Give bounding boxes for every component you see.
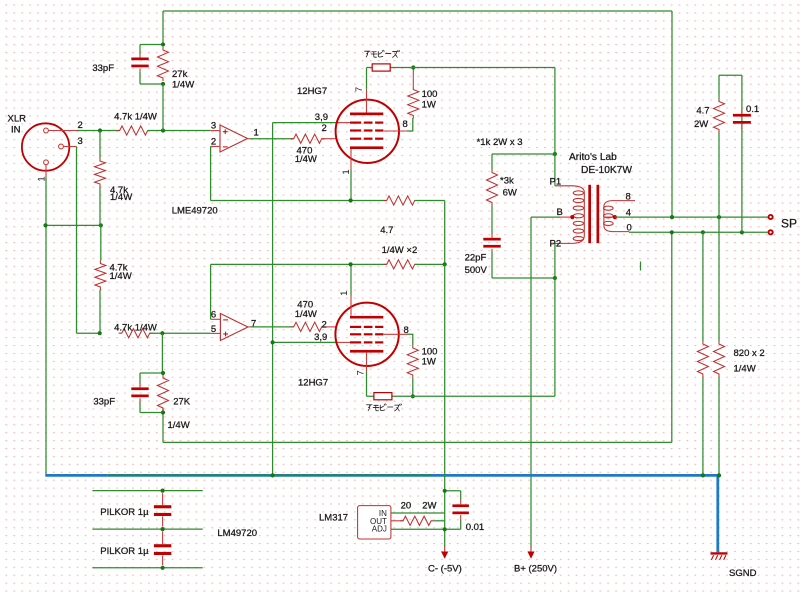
power C- arrow bbox=[441, 547, 448, 559]
wire stub I bbox=[640, 262, 642, 271]
resistor 100 R10 bbox=[407, 345, 418, 378]
capacitor 33pF C2 bbox=[131, 373, 148, 413]
wire cathode1 row bbox=[211, 200, 387, 202]
op-amp U1A LME49720 bbox=[211, 125, 250, 152]
wire bead1 rail bbox=[367, 67, 555, 69]
ferrite bead FB2 bbox=[374, 393, 392, 400]
pin 3 lead XLR bbox=[63, 146, 76, 148]
label IN bbox=[11, 125, 21, 136]
svg-text:DE-10K7W: DE-10K7W bbox=[581, 165, 632, 176]
pin label 2 V2 bbox=[322, 320, 327, 331]
junction bus grid-gnd bbox=[271, 473, 275, 477]
wire R2 to mid bbox=[99, 187, 101, 225]
pin label 6 U1B bbox=[211, 309, 216, 320]
label SP bbox=[781, 217, 797, 231]
wire 820R top bbox=[718, 217, 720, 341]
resistor 470 R8 bbox=[291, 322, 325, 331]
value 27K R6 bbox=[173, 397, 191, 408]
value 4.7k R2 bbox=[110, 185, 128, 196]
pin label 1 V1 bbox=[341, 169, 352, 174]
junction 0.01 top bbox=[443, 489, 447, 493]
value 4.7k 1/4W R4 bbox=[114, 323, 157, 334]
power B+ arrow bbox=[527, 547, 534, 559]
resistor 20 2W R17 bbox=[400, 516, 434, 525]
wire tube2 cathode up bbox=[350, 264, 352, 295]
wire zobel top bbox=[719, 74, 742, 76]
transformer T1 secondary winding bbox=[604, 201, 636, 232]
value 2W R14 bbox=[694, 119, 708, 130]
value 100 R10 bbox=[422, 346, 438, 357]
svg-text:8: 8 bbox=[403, 119, 408, 130]
wire 470 R8 to tube pin2 bbox=[322, 326, 337, 328]
pin label 2 XLR bbox=[78, 120, 83, 131]
wire pilkor rail2 bbox=[92, 528, 202, 530]
wire pilkor rail1 bbox=[92, 490, 202, 492]
wire 27k1 top tap bbox=[140, 44, 163, 46]
transformer T1 primary winding bbox=[555, 186, 584, 244]
junction R10 bottom bbox=[411, 394, 415, 398]
svg-text:7: 7 bbox=[354, 87, 365, 92]
resistor 4.7k R3 divider lower bbox=[95, 261, 106, 291]
junction P1 node bbox=[0, 0, 1, 1]
resistor 4.7 R11 bbox=[384, 196, 418, 205]
svg-text:3: 3 bbox=[211, 121, 216, 132]
wire XLR3 corner to R4 node bbox=[77, 332, 100, 334]
resistor 100 R9 bbox=[408, 87, 419, 119]
pin B lead bbox=[560, 215, 574, 219]
value 33pF C2 bbox=[93, 397, 115, 408]
value 1/4W R2 bbox=[110, 192, 132, 203]
wire P1 drop bbox=[554, 68, 556, 186]
junction 3k top bbox=[553, 152, 557, 156]
junction SP0 fb bbox=[670, 230, 674, 234]
pin 1 lead XLR bbox=[45, 165, 47, 178]
svg-text:*3k: *3k bbox=[500, 175, 514, 186]
wire 820R bottom bbox=[718, 377, 720, 475]
value 1/4W R7 bbox=[295, 154, 317, 165]
wire cathode join vertical bbox=[444, 201, 446, 265]
pin label 4 T1 bbox=[626, 207, 631, 218]
wire 27k2 bottom tap bbox=[140, 412, 163, 414]
wire cathode2 row right bbox=[415, 263, 445, 265]
svg-text:27k: 27k bbox=[172, 69, 188, 80]
svg-text:2: 2 bbox=[78, 120, 83, 131]
svg-text:SP: SP bbox=[781, 217, 797, 231]
svg-text:1/4W: 1/4W bbox=[295, 154, 317, 165]
pin label 1 U1A bbox=[254, 128, 259, 139]
junction R4 in node bbox=[98, 331, 102, 335]
label PILKOR 1u C6 bbox=[100, 507, 149, 518]
value 1/4W x2 R11R12 bbox=[382, 245, 418, 256]
wire tube1 grid lead red bbox=[336, 122, 350, 124]
junction 27k2 bottom bbox=[161, 410, 165, 414]
svg-text:2W: 2W bbox=[422, 500, 436, 511]
wire top feedback rail bbox=[163, 10, 672, 12]
junction divider mid bbox=[99, 223, 103, 227]
capacitor 0.01 C5 bbox=[452, 491, 469, 530]
pin P1 lead bbox=[0, 0, 1, 1]
junction 27k1 top bbox=[161, 42, 165, 46]
wire R3 to R4 node bbox=[99, 290, 101, 333]
junction pin1 gnd bbox=[43, 223, 47, 227]
value 4.7k 1/4W R1 bbox=[114, 112, 157, 123]
value 470 R8 bbox=[297, 299, 313, 310]
label LM317 bbox=[319, 513, 348, 524]
svg-text:PILKOR 1µ: PILKOR 1µ bbox=[100, 507, 149, 518]
value 820 x 2 bbox=[734, 348, 765, 359]
wire 27k2 top tap bbox=[140, 372, 163, 374]
value 6W R13 bbox=[503, 188, 517, 199]
svg-text:33pF: 33pF bbox=[93, 397, 115, 408]
svg-text:B: B bbox=[557, 207, 563, 218]
svg-text:1/4W: 1/4W bbox=[110, 271, 132, 282]
bus SGND left blue bbox=[45, 474, 108, 477]
wire 27k1 bottom tap bbox=[140, 83, 163, 85]
pin label 2 U1A bbox=[211, 136, 216, 147]
wire tube2 plate down bbox=[366, 372, 368, 396]
wire mid to R3 bbox=[100, 225, 102, 260]
svg-text:1/4W: 1/4W bbox=[734, 363, 756, 374]
wire node to R2 bbox=[99, 131, 101, 159]
value 1/4W R6 bbox=[168, 420, 190, 431]
wire tube2 grid lead red bbox=[336, 341, 350, 343]
wire LM317 ADJ bbox=[391, 528, 461, 530]
wire tube1 pin8 elbow bbox=[407, 118, 413, 131]
wire grid ground vertical bbox=[272, 123, 274, 476]
capacitor PILKOR C7 bbox=[154, 532, 171, 566]
ground SGND symbol bbox=[711, 553, 728, 559]
svg-text:1: 1 bbox=[254, 128, 259, 139]
wire R4 to opamp2 pin5 bbox=[150, 332, 211, 334]
connector XLR IN bbox=[22, 123, 69, 170]
wire XLR1 ground drop bbox=[45, 178, 47, 476]
junction pilkor3 bbox=[161, 566, 165, 570]
junction grid gnd tube2 bbox=[271, 340, 275, 344]
label amobeads FB1 bbox=[0, 0, 1, 1]
terminal SP- bbox=[769, 230, 773, 234]
svg-text:1: 1 bbox=[341, 169, 352, 174]
wire tube1 cathode down bbox=[350, 170, 352, 201]
wire 3k top lead bbox=[491, 154, 493, 170]
label Arito's Lab bbox=[569, 152, 617, 163]
svg-text:4.7: 4.7 bbox=[380, 225, 393, 236]
junction P2 node bbox=[553, 276, 557, 280]
wire 470 R7 to tube pin2 bbox=[322, 138, 337, 140]
wire C- drop bbox=[444, 264, 446, 547]
terminal SP+ bbox=[769, 215, 773, 219]
value 1/4W R3 bbox=[110, 271, 132, 282]
svg-text:2W: 2W bbox=[694, 119, 708, 130]
tube V2 12HG7 bbox=[335, 296, 398, 373]
junction tube2 cathode bbox=[349, 262, 353, 266]
resistor 4.7k R4 lower input bbox=[119, 329, 153, 338]
wire P2 drop bbox=[554, 243, 556, 278]
label LM49720 bbox=[217, 528, 257, 539]
wire right feedback drop from SP4 bbox=[671, 11, 673, 217]
value 2W R17 bbox=[422, 500, 436, 511]
pin label 0 T1 bbox=[627, 223, 632, 234]
junction SP4 fb bbox=[670, 215, 674, 219]
wire XLR3 down bbox=[76, 147, 78, 334]
capacitor 0.1 C4 bbox=[733, 75, 751, 232]
resistor 4.7 R12 bbox=[384, 260, 418, 269]
svg-text:6: 6 bbox=[211, 309, 216, 320]
svg-text:IN: IN bbox=[11, 125, 21, 136]
value 22pF C3 bbox=[465, 253, 487, 264]
svg-text:2: 2 bbox=[211, 136, 216, 147]
pin label 7 V1 bbox=[354, 87, 365, 92]
svg-text:27K: 27K bbox=[173, 397, 191, 408]
pin label 3,9 V2 bbox=[314, 332, 327, 343]
wire tube1 pin8 lead bbox=[383, 130, 407, 132]
svg-text:1W: 1W bbox=[422, 357, 436, 368]
svg-text:100: 100 bbox=[422, 89, 438, 100]
value 1/4W R8 bbox=[295, 309, 317, 320]
bus SGND drop bbox=[716, 474, 719, 552]
svg-text:22pF: 22pF bbox=[465, 253, 487, 264]
wire cap bottom tap bbox=[492, 277, 555, 279]
resistor 4.7 2W R14 bbox=[714, 99, 725, 133]
svg-text:LM49720: LM49720 bbox=[217, 528, 257, 539]
svg-text:1/4W: 1/4W bbox=[295, 309, 317, 320]
pin label 7 U1B bbox=[251, 318, 256, 329]
wire 27k C2 bottom drop bbox=[162, 408, 164, 443]
svg-text:20: 20 bbox=[401, 500, 412, 511]
label C- (-5V) bbox=[428, 564, 462, 575]
svg-text:1/4W: 1/4W bbox=[172, 80, 194, 91]
pin label 3 U1A bbox=[211, 121, 216, 132]
wire 27k1 to input node bbox=[162, 84, 164, 131]
value 4.7 R11R12 bbox=[380, 225, 393, 236]
wire tube2 pin8 elbow bbox=[407, 334, 413, 345]
wire lower feedback rail bbox=[163, 441, 672, 443]
svg-text:C- (-5V): C- (-5V) bbox=[428, 564, 462, 575]
wire tube1 grid row bbox=[273, 122, 336, 124]
svg-text:ADJ: ADJ bbox=[372, 525, 387, 534]
resistor 4.7k R1 input bbox=[117, 126, 151, 135]
svg-text:4.7k 1/4W: 4.7k 1/4W bbox=[114, 323, 157, 334]
svg-text:B+ (250V): B+ (250V) bbox=[514, 564, 557, 575]
svg-text:3,9: 3,9 bbox=[314, 332, 327, 343]
value 0.01 C5 bbox=[466, 522, 485, 533]
pin label 3 XLR bbox=[78, 136, 83, 147]
junction SP0 cap bbox=[740, 230, 744, 234]
wire 820L bottom bbox=[702, 377, 704, 475]
resistor 27k R5 bbox=[158, 47, 169, 81]
svg-text:XLR: XLR bbox=[8, 114, 27, 125]
wire B+ drop bbox=[530, 217, 532, 547]
label B+ (250V) bbox=[514, 564, 557, 575]
svg-text:*1k 2W x 3: *1k 2W x 3 bbox=[477, 137, 523, 148]
svg-text:500V: 500V bbox=[465, 265, 488, 276]
value 27k R5 bbox=[172, 69, 188, 80]
pin label 1 XLR bbox=[36, 176, 47, 181]
wire P2 node to bead2 bbox=[554, 278, 556, 396]
capacitor 22pF C3 bbox=[483, 234, 500, 252]
junction XLR2 node bbox=[98, 128, 102, 132]
wire cap to P2 node bbox=[491, 252, 493, 278]
junction tube1 cathode bbox=[349, 198, 353, 202]
svg-text:1W: 1W bbox=[422, 100, 436, 111]
wire right lower feedback drop bbox=[671, 232, 673, 442]
pin 8 lead T1 bbox=[0, 0, 1, 1]
wire bead2 rail bbox=[367, 395, 555, 397]
pin label 5 U1B bbox=[211, 324, 216, 335]
wire LM317 IN bbox=[391, 512, 445, 514]
label SGND bbox=[729, 568, 757, 579]
pin 4 lead T1 bbox=[604, 215, 617, 219]
svg-text:12HG7: 12HG7 bbox=[298, 378, 328, 389]
junction pilkor1 top bbox=[161, 489, 165, 493]
wire tube1 plate up bbox=[366, 68, 368, 89]
wire LM317 OUT lead bbox=[391, 520, 403, 522]
label LME49720 bbox=[172, 206, 218, 217]
wire cathode1 row right bbox=[415, 200, 445, 202]
transformer T1 core bbox=[588, 185, 599, 243]
junction 27k2 top bbox=[161, 371, 165, 375]
pin label 7 V2 bbox=[356, 370, 367, 375]
pin label P1 bbox=[550, 177, 562, 188]
junction bus 820L bbox=[701, 473, 705, 477]
wire 3k to cap bbox=[491, 206, 493, 235]
pin label 8 V1 bbox=[403, 119, 408, 130]
wire SP4 line bbox=[615, 216, 768, 218]
value 0.1 C4 bbox=[746, 104, 759, 115]
svg-text:2: 2 bbox=[322, 123, 327, 134]
wire 820L top bbox=[702, 232, 704, 341]
value 470 R7 bbox=[297, 145, 313, 156]
svg-text:5: 5 bbox=[211, 324, 216, 335]
svg-text:33pF: 33pF bbox=[92, 63, 114, 74]
label amobeads FB2 text bbox=[367, 404, 402, 411]
svg-text:1/4W ×2: 1/4W ×2 bbox=[382, 245, 418, 256]
svg-text:1/4W: 1/4W bbox=[168, 420, 190, 431]
capacitor 33pF C1 bbox=[131, 45, 148, 85]
svg-text:0.01: 0.01 bbox=[466, 522, 485, 533]
value 1W R9 bbox=[422, 100, 436, 111]
junction 27k1 bottom bbox=[161, 82, 165, 86]
junction cathode C- node bbox=[443, 262, 447, 266]
junction SP0 820 bbox=[701, 230, 705, 234]
label XLR bbox=[8, 114, 27, 125]
value 500V C3 bbox=[465, 265, 488, 276]
value 1/4W R5 bbox=[172, 80, 194, 91]
junction bus 820R bbox=[717, 473, 721, 477]
svg-text:4.7: 4.7 bbox=[696, 106, 709, 117]
wire 27k C1 top drop bbox=[162, 11, 164, 45]
resistor 820 R15 bbox=[697, 341, 708, 377]
svg-text:8: 8 bbox=[626, 192, 631, 203]
svg-text:1/4W: 1/4W bbox=[110, 192, 132, 203]
value 1W R10 bbox=[422, 357, 436, 368]
ferrite bead FB1 bbox=[372, 64, 390, 71]
wire R17 to C- bbox=[434, 520, 445, 522]
label amobeads FB1 text bbox=[365, 50, 400, 57]
wire cathode2 row bbox=[211, 263, 387, 265]
pin label 3,9 V1 bbox=[315, 112, 328, 123]
pin label P2 bbox=[550, 239, 562, 250]
pin label 2 V1 bbox=[322, 123, 327, 134]
resistor 820 R16 bbox=[714, 341, 725, 377]
wire 3k top tap bbox=[492, 153, 555, 155]
resistor 470 R7 bbox=[291, 134, 325, 143]
value *3k R13 bbox=[500, 175, 514, 186]
wire opamp2 out bbox=[250, 326, 293, 328]
ic LM317 U2 bbox=[358, 506, 391, 539]
pin label 1 V2 bbox=[339, 291, 350, 296]
value 4.7 R14 bbox=[696, 106, 709, 117]
wire B tap bbox=[531, 216, 560, 218]
note *1k 2W x 3 bbox=[477, 137, 523, 148]
value 33pF C1 bbox=[92, 63, 114, 74]
wire opamp2 pin6 up bbox=[210, 264, 212, 319]
wire tube2 pin8 lead bbox=[383, 333, 407, 335]
svg-text:0.1: 0.1 bbox=[746, 104, 759, 115]
wire pin1 to divider bbox=[46, 224, 101, 226]
capacitor PILKOR C6 bbox=[154, 493, 171, 526]
svg-text:SGND: SGND bbox=[729, 568, 757, 579]
svg-text:7: 7 bbox=[251, 318, 256, 329]
svg-text:Arito's Lab: Arito's Lab bbox=[569, 152, 617, 163]
wire XLR2 to R 4.7k bbox=[77, 130, 120, 132]
op-amp U1B LME49720 bbox=[211, 314, 251, 341]
svg-text:2: 2 bbox=[322, 320, 327, 331]
wire opamp1 out bbox=[250, 138, 294, 140]
svg-text:1: 1 bbox=[339, 291, 350, 296]
value 1/4W 820 bbox=[734, 363, 756, 374]
wire opamp1 pin2 down bbox=[210, 146, 212, 200]
resistor 4.7k R2 divider upper bbox=[95, 158, 106, 187]
label 12HG7 V1 bbox=[297, 86, 327, 97]
svg-text:PILKOR 1µ: PILKOR 1µ bbox=[100, 546, 149, 557]
wire zobel R down bbox=[718, 133, 720, 218]
junction SP4 zobel bbox=[717, 215, 721, 219]
resistor 27K R6 bbox=[158, 375, 169, 411]
wire SP0 line bbox=[629, 231, 768, 233]
value 4.7k R3 bbox=[110, 263, 128, 274]
wire tube2 grid row bbox=[273, 341, 336, 343]
bus SGND teal overlap bbox=[108, 474, 432, 477]
svg-text:3: 3 bbox=[78, 136, 83, 147]
svg-text:7: 7 bbox=[356, 370, 367, 375]
pin P2 lead bbox=[0, 0, 1, 1]
label 12HG7 V2 bbox=[298, 378, 328, 389]
pin 2 lead XLR bbox=[48, 130, 77, 132]
wire zobel R top lead bbox=[718, 75, 720, 98]
wire R4node down to 27k2 bbox=[161, 333, 163, 373]
bus SGND right blue bbox=[432, 474, 720, 477]
label DE-10K7W bbox=[581, 165, 632, 176]
svg-text:820 x 2: 820 x 2 bbox=[734, 348, 765, 359]
svg-text:3,9: 3,9 bbox=[315, 112, 328, 123]
pin label 8 V2 bbox=[404, 325, 409, 336]
pin label 8 T1 bbox=[626, 192, 631, 203]
tube V1 12HG7 bbox=[336, 89, 399, 170]
wire R1 to opamp bbox=[148, 130, 211, 132]
wire R9 top lead bbox=[412, 68, 414, 87]
svg-text:4.7k 1/4W: 4.7k 1/4W bbox=[114, 112, 157, 123]
svg-text:LME49720: LME49720 bbox=[172, 206, 218, 217]
junction ADJ node bbox=[443, 527, 447, 531]
value 100 R9 bbox=[422, 89, 438, 100]
svg-text:6W: 6W bbox=[503, 188, 517, 199]
junction pilkor mid bbox=[161, 527, 165, 531]
junction R9 top bbox=[411, 65, 415, 69]
wire pilkor rail3 bbox=[92, 567, 202, 569]
svg-text:12HG7: 12HG7 bbox=[297, 86, 327, 97]
pin 0 lead T1 bbox=[0, 0, 1, 1]
wire 0.01 top tap bbox=[445, 490, 461, 492]
